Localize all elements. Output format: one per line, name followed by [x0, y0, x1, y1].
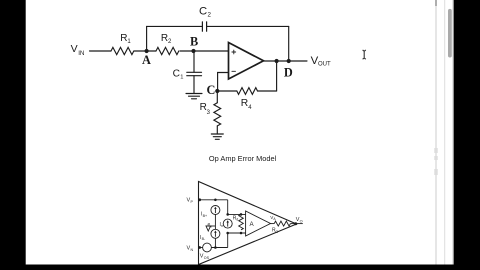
label R1	[120, 33, 131, 45]
svg-text:R: R	[120, 33, 127, 44]
svg-text:B+: B+	[203, 214, 208, 218]
svg-text:B: B	[190, 34, 198, 48]
wire V_N corner up to I_n bottom	[227, 233, 229, 248]
ground below C1	[186, 94, 202, 99]
label V_O	[296, 217, 303, 223]
text cursor I-beam	[363, 50, 366, 59]
junction I_n bottom	[226, 232, 229, 235]
node at feedback junction	[275, 59, 279, 63]
junction I_n top	[226, 213, 229, 216]
svg-text:A: A	[273, 217, 276, 221]
svg-text:V: V	[71, 43, 78, 55]
svg-text:C: C	[173, 68, 180, 79]
junction above I_B+	[214, 199, 217, 202]
letterbox left black bar	[0, 0, 26, 270]
label e_n	[208, 222, 213, 228]
label V_N	[187, 246, 194, 253]
resistor R4	[237, 88, 258, 95]
wire V_os to corner	[211, 247, 227, 249]
capacitor C2	[202, 22, 206, 31]
label V_A	[270, 215, 276, 221]
label R_O	[272, 228, 278, 234]
label I_B-	[200, 235, 206, 241]
svg-text:1: 1	[180, 75, 183, 81]
wire riser node A to C2 top rail	[146, 26, 148, 51]
svg-text:d: d	[236, 218, 238, 222]
label R3	[200, 102, 211, 116]
svg-text:2: 2	[168, 39, 172, 45]
splitter marks	[434, 148, 437, 175]
svg-text:IN: IN	[78, 50, 85, 57]
scrollbar track	[445, 0, 453, 265]
wire R1 to node A	[134, 50, 156, 52]
wire top rail to gain stage	[228, 213, 246, 215]
current source I_B+	[211, 206, 220, 215]
wire top rail left of C2	[147, 25, 203, 27]
wire R2 to op-amp + input	[180, 50, 229, 52]
wire R4 right lead	[258, 90, 277, 92]
resistor R2	[156, 47, 179, 54]
wire op-amp output to V_OUT	[264, 60, 308, 62]
label R4	[241, 98, 253, 111]
current source I_B-	[211, 229, 220, 238]
resistor R1	[111, 47, 134, 54]
svg-text:Op Amp Error Model: Op Amp Error Model	[209, 154, 277, 163]
wire V_P corner down to I_n	[227, 200, 229, 215]
wire top rail right of C2	[207, 25, 289, 27]
letterbox bottom black bar	[0, 265, 480, 270]
current source I_n	[223, 219, 232, 228]
svg-text:N: N	[191, 248, 194, 252]
svg-text:OUT: OUT	[318, 62, 331, 68]
wire I_B- down to V_N rail	[214, 238, 216, 247]
svg-text:A: A	[142, 53, 151, 67]
svg-text:C: C	[199, 5, 207, 17]
wire V_N to V_os	[200, 247, 203, 249]
label V_os	[200, 254, 210, 261]
wire feedback down from output	[276, 61, 278, 91]
wire node B down to C1	[193, 51, 195, 72]
svg-text:D: D	[284, 65, 293, 79]
noise source e_n symbol	[206, 226, 215, 231]
svg-text:n: n	[221, 224, 223, 228]
node V_O terminal	[294, 222, 297, 225]
wire node C down to R3	[216, 91, 218, 103]
svg-text:1: 1	[127, 39, 131, 45]
svg-text:2: 2	[208, 12, 212, 19]
svg-text:B-: B-	[202, 237, 206, 241]
resistor R3	[214, 103, 221, 126]
label R2	[161, 33, 172, 45]
label V_OUT	[311, 55, 331, 68]
wire node C to op-amp minus input	[218, 73, 229, 92]
node V_P terminal	[198, 198, 201, 201]
voltage source V_os	[203, 243, 212, 252]
wire R4 to node C	[217, 90, 237, 92]
op-amp plus input mark	[232, 50, 236, 54]
svg-text:O: O	[300, 219, 303, 223]
label I_B+	[201, 212, 207, 218]
op-amp U1	[229, 43, 264, 80]
label R_d	[233, 215, 238, 221]
svg-text:OS: OS	[204, 256, 210, 260]
junction below I_B-	[214, 246, 217, 249]
wire between I_B+ and I_B-	[214, 215, 216, 230]
label C2	[199, 5, 212, 18]
node D	[287, 59, 291, 63]
svg-text:A: A	[250, 221, 255, 228]
error model big triangle	[199, 182, 297, 265]
wire gain stage output	[271, 223, 275, 225]
junction R_d top	[240, 213, 243, 216]
wire riser C2 rail down to node D rail	[288, 26, 290, 61]
wire V_IN to R1	[90, 50, 112, 52]
wire R_O to output vertex	[290, 223, 302, 225]
resistor R_O	[274, 221, 290, 226]
svg-text:P: P	[191, 200, 194, 204]
node C	[215, 89, 219, 93]
label V_IN	[71, 43, 85, 57]
wire bottom rail to gain stage	[228, 232, 246, 234]
node V_N terminal	[198, 246, 201, 249]
wire C1 to ground	[193, 76, 195, 94]
label I_n	[220, 222, 224, 228]
svg-text:4: 4	[248, 105, 252, 111]
gain stage triangle A	[246, 211, 271, 236]
capacitor C1	[187, 72, 202, 75]
ground below R3	[211, 134, 223, 139]
op-amp minus input mark	[232, 70, 236, 72]
wire V_P rail	[200, 199, 228, 201]
node A	[145, 49, 149, 53]
node B	[191, 49, 195, 53]
svg-text:n: n	[210, 224, 212, 228]
svg-text:R: R	[241, 98, 248, 109]
scrollbar thumb	[448, 9, 452, 58]
splitter top handle	[435, 0, 437, 6]
letterbox right black bar	[454, 0, 480, 270]
svg-text:O: O	[275, 230, 278, 234]
label C1	[173, 68, 184, 80]
svg-text:3: 3	[207, 110, 211, 116]
wire R3 to ground	[216, 126, 218, 134]
svg-text:C: C	[207, 83, 216, 97]
junction R_d bottom	[240, 232, 243, 235]
label V_P	[187, 198, 194, 205]
pane splitter line	[435, 0, 437, 265]
resistor R_d	[239, 214, 244, 229]
